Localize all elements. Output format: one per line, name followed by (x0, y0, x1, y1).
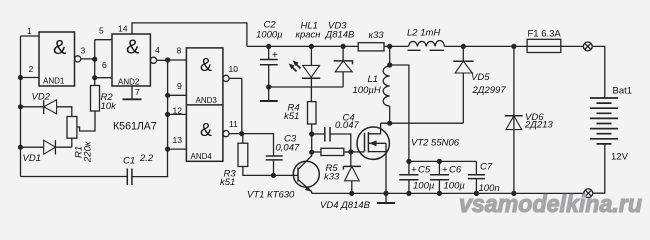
wire drain line (381, 122, 464, 124)
wire plus rail top (247, 45, 358, 47)
svg-text:13: 13 (173, 135, 183, 145)
wire R1 bottom (71, 138, 73, 147)
svg-text:C7: C7 (480, 162, 493, 173)
svg-text:&: & (53, 37, 67, 59)
node VD1 junction (18, 145, 23, 150)
svg-text:C5: C5 (418, 165, 431, 176)
capacitor C7 (475, 161, 477, 174)
gate AND3 AND4 box (186, 48, 223, 161)
svg-text:к33: к33 (369, 30, 385, 41)
svg-text:100µ: 100µ (444, 181, 466, 192)
wire pin3 to AND2 inputs (81, 58, 95, 60)
gate AND3 output bubble pin 10 (223, 75, 229, 81)
svg-text:10: 10 (229, 64, 239, 74)
node L1 tap (387, 62, 392, 67)
capacitor C5 (408, 161, 410, 174)
diode VD1 (21, 146, 44, 148)
svg-text:2Д213: 2Д213 (524, 120, 554, 131)
node pin11 junction (239, 131, 244, 136)
fuse F1 (527, 39, 561, 52)
node C5 top (406, 159, 411, 164)
svg-text:AND3: AND3 (196, 96, 218, 105)
node C3-base (271, 173, 276, 178)
zener VD3 (342, 46, 344, 61)
svg-text:6: 6 (102, 60, 107, 70)
svg-text:VD1: VD1 (23, 153, 41, 164)
svg-text:VD5: VD5 (471, 72, 490, 83)
node C4 junction (309, 131, 314, 136)
capacitor C1 (126, 169, 128, 186)
svg-text:C6: C6 (449, 165, 462, 176)
svg-text:11: 11 (229, 119, 238, 129)
wire pin12 (168, 113, 187, 115)
ground bar AND2 pin7 (123, 98, 142, 100)
svg-text:AND4: AND4 (191, 152, 213, 161)
node collector (309, 150, 314, 155)
wire left rail (20, 36, 22, 177)
svg-text:+: + (272, 50, 278, 61)
wire pin11 node (229, 134, 273, 156)
node C2 bottom (266, 84, 271, 89)
node L1 top (387, 44, 392, 49)
wire pin1 (21, 35, 40, 37)
gate AND1 output bubble pin 3 (75, 56, 81, 62)
wire pin9 (168, 94, 187, 96)
wire pin13 (168, 148, 187, 150)
svg-text:100µ: 100µ (413, 181, 435, 192)
svg-text:VD2: VD2 (32, 92, 51, 103)
resistor R5 (312, 151, 321, 153)
svg-text:220к: 220к (83, 141, 94, 163)
wire C3 bottom to base line (273, 160, 275, 176)
svg-text:L2 1mH: L2 1mH (407, 27, 440, 38)
diode VD6 (511, 44, 516, 49)
MOSFET VT2 (357, 127, 389, 159)
resistor R2 (91, 86, 100, 112)
node pin13 (165, 147, 170, 152)
resistor R3 (242, 134, 244, 144)
wire R2 bottom to R1 wiper (77, 111, 95, 131)
wire pin10 to pin11 (229, 78, 242, 133)
svg-text:1000µ: 1000µ (256, 29, 283, 40)
ground main (385, 193, 387, 202)
svg-text:F1 6.3A: F1 6.3A (528, 29, 562, 40)
op-amp U1 gate AND1 box (39, 32, 75, 86)
svg-text:4: 4 (155, 45, 160, 55)
wire pin6 (95, 77, 112, 79)
svg-text:VT1 КТ630: VT1 КТ630 (247, 190, 295, 201)
wire C1 right to pin13 node (132, 149, 168, 177)
svg-text:vsamodelkina.ru: vsamodelkina.ru (459, 191, 642, 218)
svg-text:+: + (411, 165, 417, 176)
svg-text:C1: C1 (123, 156, 135, 167)
node pin3-5 (92, 57, 97, 62)
svg-text:1: 1 (27, 26, 32, 36)
svg-text:2: 2 (29, 64, 34, 74)
ground C2 (268, 87, 270, 101)
node C2 top (266, 44, 271, 49)
wire AND3/AND4 input bus (157, 59, 168, 61)
resistor R4 (308, 102, 317, 124)
wire to battery top (592, 46, 605, 98)
svg-text:AND2: AND2 (118, 78, 140, 87)
svg-text:Bat1: Bat1 (613, 86, 633, 97)
wire output caps line (409, 160, 477, 162)
node gate (348, 149, 353, 154)
wire pin5 (95, 39, 112, 41)
svg-text:8: 8 (177, 46, 182, 56)
diode VD2 (21, 106, 44, 108)
resistor к33 (358, 43, 384, 51)
LED arrows (291, 66, 297, 72)
node C7 bottom (474, 191, 479, 196)
wire pin14 to top rail (132, 23, 247, 47)
transistor Q1 VT1 (293, 161, 319, 187)
wire bottom rail (312, 192, 584, 194)
capacitor C2 (268, 46, 270, 59)
node drain (387, 121, 392, 126)
svg-text:5: 5 (99, 26, 104, 36)
svg-text:k51: k51 (220, 177, 235, 188)
inductor L1 (389, 46, 391, 66)
wire gate (351, 151, 365, 153)
capacitor C3 (266, 155, 283, 157)
svg-text:2Д2997: 2Д2997 (472, 85, 507, 96)
wire R4 bottom to collector (311, 124, 313, 152)
wire pin8 (168, 59, 187, 61)
svg-text:К561ЛА7: К561ЛА7 (113, 121, 157, 133)
resistor R1 (67, 117, 77, 139)
inductor L2 (384, 45, 409, 47)
svg-text:2.2: 2.2 (139, 153, 154, 164)
terminal clamp top (583, 42, 592, 51)
svg-text:VT2 55N06: VT2 55N06 (411, 138, 460, 149)
node C6 bottom (437, 191, 442, 196)
diode VD5 (461, 44, 466, 49)
svg-text:L1: L1 (368, 74, 379, 85)
svg-text:k51: k51 (284, 111, 299, 122)
wire pin7 ground stem (131, 86, 133, 99)
zener VD4 (350, 152, 352, 167)
wire vertical connect pins 5,6 (94, 40, 96, 86)
wire mid ground line (269, 86, 343, 88)
svg-text:7: 7 (135, 87, 140, 97)
node pin2 junction (18, 75, 23, 80)
node pin6 (92, 75, 97, 80)
node pin9 (165, 93, 170, 98)
wire pin2 (21, 77, 40, 79)
svg-text:10k: 10k (101, 101, 118, 112)
svg-text:100µH: 100µH (353, 85, 381, 96)
node HL1 top (309, 44, 314, 49)
svg-text:14: 14 (118, 24, 128, 34)
svg-text:k33: k33 (324, 172, 340, 183)
svg-text:12: 12 (173, 106, 183, 116)
svg-text:+: + (442, 165, 448, 176)
svg-text:9: 9 (177, 81, 182, 91)
gate AND2 output bubble pin 4 (150, 57, 156, 63)
node source ground (383, 191, 388, 196)
svg-text:0,047: 0,047 (276, 142, 300, 153)
svg-text:&: & (200, 120, 212, 140)
svg-text:красн: красн (296, 29, 322, 40)
svg-text:&: & (126, 37, 140, 59)
node pin12 (165, 112, 170, 117)
terminal clamp bottom (584, 189, 593, 198)
gate AND2 box (112, 34, 150, 86)
LED HL1 (310, 46, 312, 65)
gate AND4 output bubble pin 11 (223, 131, 229, 137)
wire tap to output caps (390, 65, 409, 161)
svg-text:Д814В: Д814В (325, 29, 356, 40)
node C6 top (437, 159, 442, 164)
node VD4 bottom (349, 191, 354, 196)
svg-text:AND1: AND1 (43, 77, 65, 86)
wire R3 bottom to VT1 base (243, 167, 298, 176)
capacitor C6 (438, 161, 440, 174)
svg-text:VD4 Д814В: VD4 Д814В (320, 200, 371, 211)
capacitor C4 (312, 133, 325, 135)
svg-text:3: 3 (81, 46, 86, 56)
svg-text:12V: 12V (611, 152, 629, 163)
svg-text:0.047: 0.047 (335, 120, 359, 131)
node VD2 junction (18, 104, 23, 109)
node VD6 bottom (511, 191, 516, 196)
node C5 bottom (406, 191, 411, 196)
node VD3 top (341, 44, 346, 49)
wire bottom-left feedback line (21, 176, 128, 178)
node pin8 (165, 57, 170, 62)
svg-text:&: & (200, 55, 212, 75)
